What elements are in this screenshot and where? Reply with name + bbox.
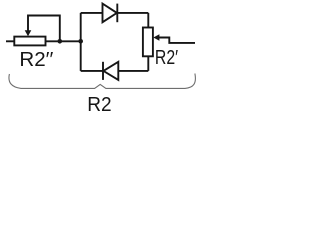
wire wiper loop of R2''	[28, 16, 60, 42]
brace R2 extent	[9, 74, 195, 89]
wire bottom rail left	[81, 70, 103, 72]
arrowhead of R2'' wiper	[25, 30, 32, 36]
diode D2 triangle	[103, 62, 118, 80]
diode D2 cathode bar	[102, 62, 104, 80]
wire from R2'' right to bridge node	[46, 40, 81, 42]
wire right vertical top	[147, 13, 149, 28]
resistor R2'	[143, 28, 153, 57]
diode D1 cathode bar	[116, 4, 118, 23]
wire bridge left vertical	[80, 13, 82, 71]
resistor R2''	[14, 37, 45, 46]
wire wiper lead of R2'	[159, 38, 196, 43]
svg-text:R2: R2	[87, 93, 111, 114]
junction dot node B	[78, 39, 83, 44]
wire top rail left	[81, 12, 103, 14]
wire right vertical bottom	[147, 56, 149, 71]
wire top rail right	[117, 12, 148, 14]
wire bottom rail right	[118, 70, 148, 72]
diode D1 triangle	[103, 4, 117, 23]
wire left lead of R2''	[6, 40, 14, 42]
arrowhead of R2' wiper	[153, 34, 159, 40]
junction dot node A	[58, 39, 63, 44]
svg-text:R2′′: R2′′	[19, 48, 53, 71]
svg-text:R2′: R2′	[155, 46, 178, 69]
